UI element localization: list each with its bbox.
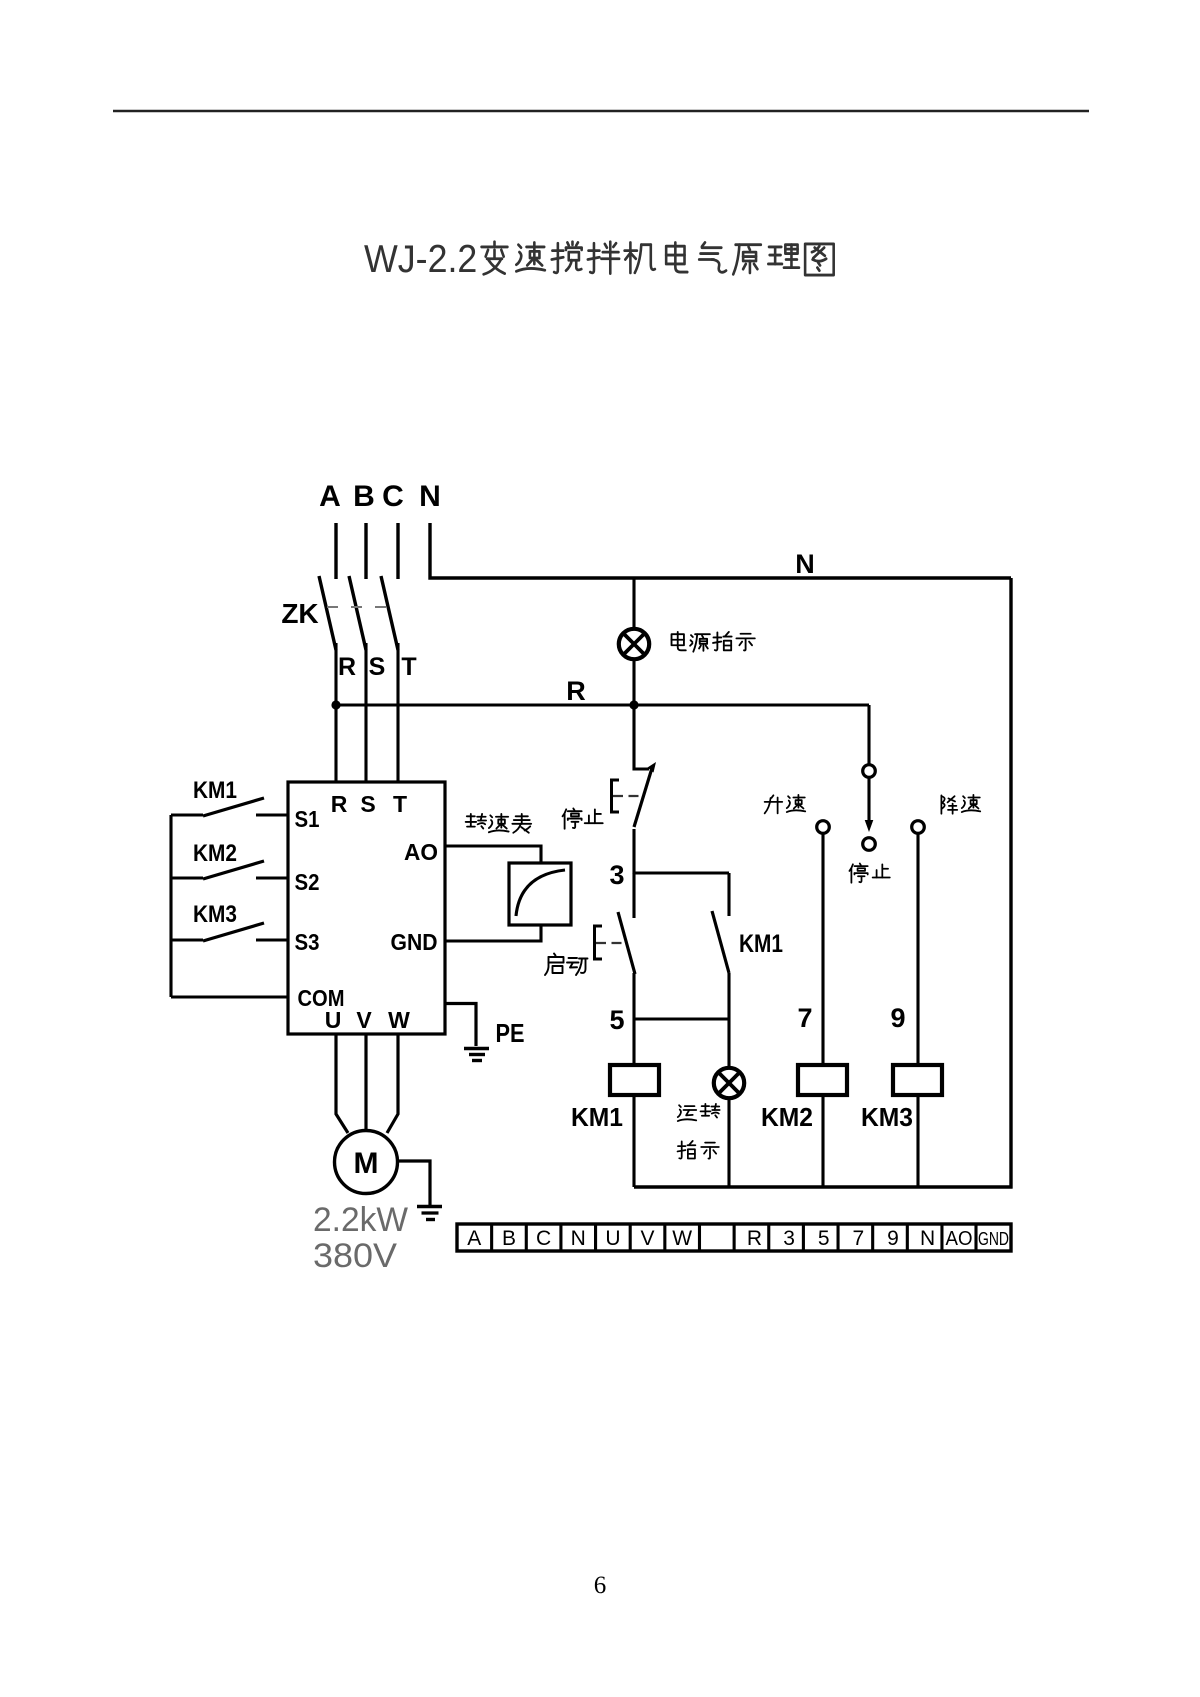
svg-text:9: 9 — [890, 1003, 905, 1033]
wire speed-down to KM3 coil — [916, 834, 919, 1065]
wire R line to stop button — [634, 705, 649, 769]
svg-text:3: 3 — [609, 860, 624, 890]
wire R horizontal control feed — [336, 703, 869, 706]
wire KM3 coil to bottom rail — [916, 1095, 919, 1187]
wire KM1 contact to node 5 — [727, 973, 730, 1019]
svg-text:WJ-2.2: WJ-2.2 — [364, 237, 477, 280]
wire node3 to start button — [632, 873, 635, 918]
breaker ZK blade pole A — [319, 576, 336, 650]
svg-text:W: W — [672, 1227, 692, 1250]
svg-text:KM1: KM1 — [571, 1102, 623, 1132]
meter P1 (speed meter) box — [509, 863, 571, 925]
wire bottom N rail — [634, 1185, 1013, 1188]
wire AO to meter — [445, 846, 541, 863]
wire node 5 horizontal — [634, 1017, 729, 1020]
svg-text:GND: GND — [978, 1229, 1009, 1249]
wire R line corner to remote stop — [867, 705, 870, 765]
svg-text:R: R — [747, 1227, 762, 1250]
svg-text:C: C — [536, 1227, 551, 1250]
svg-text:380V: 380V — [313, 1237, 397, 1275]
junction dot lamp branch — [629, 700, 638, 709]
button terminal speed-up — [817, 821, 830, 834]
svg-text:W: W — [388, 1007, 410, 1033]
wire COM row to PE — [445, 1004, 476, 1047]
svg-text:PE: PE — [496, 1018, 525, 1048]
inverter U1 box — [288, 782, 445, 1034]
svg-text:KM3: KM3 — [861, 1102, 913, 1132]
breaker ZK linkage dashed — [327, 606, 396, 608]
svg-text:N: N — [571, 1227, 586, 1250]
label qidong (start) — [545, 954, 564, 976]
wire phase A drop — [334, 523, 337, 579]
terminal strip XT outer — [457, 1224, 1011, 1251]
wire T vertical — [396, 643, 399, 782]
svg-text:GND: GND — [391, 929, 438, 955]
wire lamp to R line — [632, 659, 635, 705]
svg-text:B: B — [502, 1227, 516, 1250]
label zhuansubiao (speed meter) — [466, 814, 486, 829]
svg-text:C: C — [382, 480, 404, 513]
svg-text:7: 7 — [797, 1003, 812, 1033]
svg-text:KM1: KM1 — [739, 930, 783, 958]
svg-text:N: N — [795, 549, 815, 579]
wire run lamp to bottom rail — [727, 1098, 730, 1187]
ground PE symbol — [464, 1047, 489, 1051]
wire W to motor — [387, 1034, 398, 1133]
wire common bus vertical — [169, 815, 172, 997]
indicator lamp HL1 (power) — [619, 629, 649, 659]
wire U to motor — [336, 1034, 348, 1133]
breaker ZK blade pole C — [381, 576, 398, 650]
svg-text:A: A — [467, 1227, 481, 1250]
label tingzhi (stop) left — [563, 808, 582, 828]
wire V to motor — [364, 1034, 367, 1130]
wire node5 to run lamp — [727, 1019, 730, 1068]
contact KM1 auxiliary (NO) — [712, 911, 729, 973]
svg-text:AO: AO — [946, 1228, 973, 1250]
wire start button to node 5 — [632, 973, 635, 1019]
svg-text:R: R — [338, 653, 356, 681]
svg-text:U: U — [325, 1007, 342, 1033]
svg-text:ZK: ZK — [281, 598, 318, 629]
coil KM2 — [798, 1065, 847, 1095]
indicator lamp HL2 (run) — [714, 1068, 744, 1098]
svg-text:KM2: KM2 — [193, 840, 237, 867]
svg-text:R: R — [566, 676, 586, 706]
contact KM2 (NO) to S2 — [171, 876, 203, 879]
wire KM1 coil to bottom rail — [632, 1095, 635, 1187]
coil KM1 — [610, 1065, 659, 1095]
label jiangsu (speed down) — [941, 795, 957, 813]
wire S vertical — [364, 643, 367, 782]
svg-text:S: S — [369, 653, 386, 681]
label yunzhuan zhishi (run indicator) — [678, 1105, 696, 1121]
svg-text:S: S — [360, 791, 375, 817]
svg-text:KM2: KM2 — [761, 1102, 813, 1132]
wire R vertical — [334, 643, 337, 782]
svg-text:T: T — [393, 791, 407, 817]
wire node 3 corner down — [727, 873, 730, 916]
wire phase C drop — [396, 523, 399, 579]
pushbutton remote stop terminals — [863, 765, 876, 778]
wire KM2 coil to bottom rail — [821, 1095, 824, 1187]
svg-text:KM3: KM3 — [193, 901, 237, 928]
svg-text:9: 9 — [887, 1227, 899, 1250]
svg-text:B: B — [353, 480, 375, 513]
svg-text:N: N — [920, 1227, 935, 1250]
wire phase N drop and N bus — [430, 523, 1011, 578]
button terminal speed-down — [912, 821, 925, 834]
svg-text:5: 5 — [609, 1005, 624, 1035]
svg-text:S2: S2 — [295, 869, 320, 895]
label tingzhi (remote stop) — [849, 863, 867, 882]
svg-text:T: T — [401, 653, 416, 681]
wire N to lamp — [632, 578, 635, 629]
breaker ZK blade pole B — [349, 576, 366, 650]
svg-text:A: A — [319, 480, 341, 513]
pushbutton SB1 stop (NC) — [634, 768, 652, 827]
contact KM1 (NO) to S1 — [171, 813, 203, 816]
wire node5 to KM1 coil — [632, 1019, 635, 1064]
svg-text:AO: AO — [404, 839, 438, 865]
svg-text:6: 6 — [594, 1572, 607, 1599]
wire N right vertical — [1009, 578, 1012, 1189]
svg-text:S1: S1 — [295, 806, 320, 832]
svg-text:2.2kW: 2.2kW — [313, 1201, 408, 1239]
junction dot R phase tap — [331, 700, 340, 709]
motor M1 circle — [335, 1131, 398, 1194]
terminal strip dividers — [490, 1224, 493, 1251]
svg-text:R: R — [331, 791, 348, 817]
contact KM3 (NO) to S3 — [171, 938, 203, 941]
wire phase B drop — [364, 523, 367, 579]
svg-text:N: N — [419, 480, 441, 513]
wire meter to GND — [445, 925, 541, 941]
wire stop button to node 3 — [632, 829, 635, 874]
svg-text:3: 3 — [783, 1227, 795, 1250]
title Chinese characters — [482, 242, 508, 275]
svg-text:5: 5 — [818, 1227, 830, 1250]
coil KM3 — [893, 1065, 942, 1095]
wire COM line — [171, 995, 288, 998]
meter curve — [516, 870, 565, 916]
svg-text:U: U — [605, 1227, 620, 1250]
pushbutton SB2 start (NO) — [618, 912, 635, 974]
label dianyuan zhishi (power indicator) — [672, 632, 686, 650]
svg-text:V: V — [356, 1007, 372, 1033]
page header rule — [113, 110, 1089, 112]
wire node 3 horizontal — [634, 871, 729, 874]
ground motor symbol — [417, 1205, 442, 1208]
svg-text:7: 7 — [853, 1227, 865, 1250]
label shengsu (speed up) — [765, 795, 783, 813]
svg-text:M: M — [354, 1147, 379, 1180]
wire motor to ground — [398, 1161, 431, 1205]
wire speed-up to KM2 coil — [821, 834, 824, 1065]
svg-text:KM1: KM1 — [193, 777, 237, 804]
svg-text:S3: S3 — [295, 929, 320, 955]
svg-text:V: V — [640, 1227, 654, 1250]
